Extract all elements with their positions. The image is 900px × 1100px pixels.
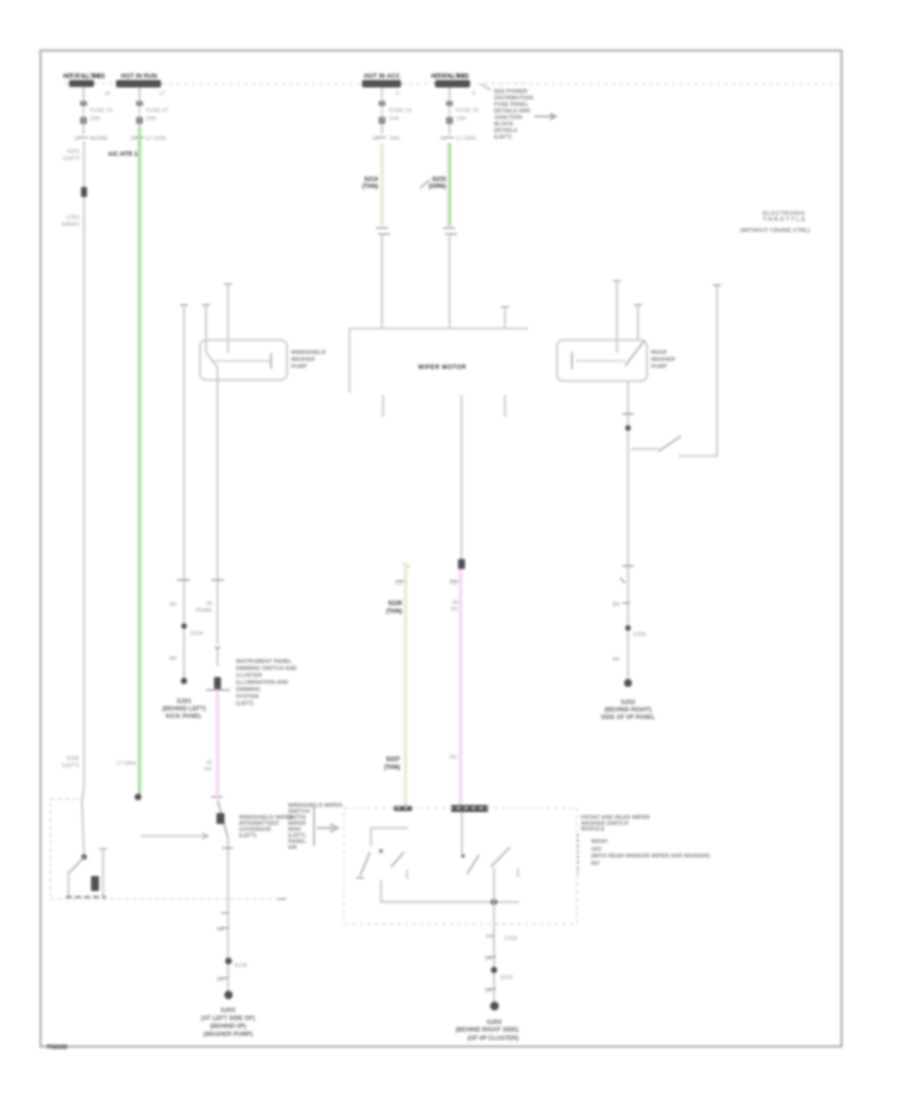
connector crossing on W7 (211, 579, 224, 581)
connector label on pink wire (450, 581, 458, 587)
wire label left of W10 (485, 956, 496, 962)
svg-text:HOT IN RUN: HOT IN RUN (121, 74, 157, 80)
internal hook left (371, 828, 408, 846)
svg-text:FUSE 14: FUSE 14 (389, 108, 411, 114)
wire into P1 pin A (202, 305, 218, 380)
switch blade BL (70, 857, 84, 872)
wire W3 tan upper segment (380, 143, 383, 226)
washer pump note (left of wiper switch box) (239, 815, 293, 839)
wire W6 tan lower segment (404, 563, 411, 806)
svg-text:G203: G203 (221, 1008, 236, 1014)
junction dot internal (491, 899, 497, 905)
contact stub right (99, 849, 107, 898)
svg-text:S214: S214 (364, 177, 379, 183)
fuse F1 symbol (80, 87, 112, 134)
splice label S206 (bottom of W1) (62, 756, 79, 769)
contact dot (379, 849, 383, 853)
connector nub on W7 (214, 677, 221, 689)
wire W7 from P1 down (217, 380, 219, 644)
connector crossing C211 on W4 (443, 228, 457, 234)
svg-text:SIDE OF I/P PANEL: SIDE OF I/P PANEL (601, 715, 656, 721)
svg-text:LT GRN: LT GRN (456, 136, 476, 142)
svg-text:JUNCTION: JUNCTION (494, 115, 522, 121)
switch blade L1 (356, 852, 370, 878)
svg-text:DIMMING: DIMMING (236, 687, 260, 693)
wire into P2 pin A (613, 281, 621, 353)
svg-text:S215: S215 (432, 177, 447, 183)
svg-text:(BEHIND RIGHT): (BEHIND RIGHT) (604, 708, 651, 714)
svg-text:20A: 20A (146, 116, 156, 122)
svg-text:PK/BK: PK/BK (196, 608, 213, 614)
svg-text:17: 17 (159, 91, 165, 97)
svg-text:WASH: WASH (591, 839, 608, 845)
svg-text:CLUSTER: CLUSTER (236, 673, 262, 679)
tick (622, 602, 630, 604)
svg-text:S226: S226 (388, 601, 403, 607)
svg-text:G202: G202 (621, 700, 636, 706)
wide tick below nub (206, 689, 230, 691)
wiper switch note with bracket (288, 803, 342, 851)
wire W4 green upper segment (448, 143, 451, 226)
svg-text:(WITHOUT CRUISE CTRL): (WITHOUT CRUISE CTRL) (740, 228, 810, 234)
arrow line to wiper switch (141, 834, 208, 839)
svg-text:10A: 10A (90, 116, 100, 122)
switch blade L2 (391, 852, 407, 879)
wire W4 gray segment to wiper motor (449, 234, 451, 328)
svg-text:KICK PANEL: KICK PANEL (166, 714, 203, 720)
svg-text:S201: S201 (67, 149, 80, 155)
connector crossing on W8 (177, 579, 190, 581)
wire gauge label row F3 (372, 136, 400, 142)
svg-text:DISTRIBUTION: DISTRIBUTION (494, 96, 533, 102)
inline connector mark (620, 578, 625, 583)
wire into P2 pin B (634, 305, 642, 340)
ground label G1 (162, 699, 206, 720)
wire label left of W11 lower (217, 977, 228, 983)
svg-text:6: 6 (396, 91, 399, 97)
svg-text:(LEFT): (LEFT) (63, 156, 80, 162)
svg-text:(LEFT): (LEFT) (236, 701, 254, 707)
svg-text:TAN: TAN (389, 136, 400, 142)
svg-text:14: 14 (104, 91, 110, 97)
svg-text:S227: S227 (386, 757, 401, 763)
wire into P1 pin B (224, 284, 232, 353)
svg-text:18: 18 (206, 760, 212, 766)
inline connector on W7 (215, 646, 220, 666)
wiper switch label (right of box) (578, 815, 710, 874)
connector label below box C228 (486, 936, 517, 942)
front washer pump P1 (rounded box) (200, 340, 287, 380)
tick at top of L-run (713, 284, 721, 286)
connector label on tan wire (395, 581, 404, 587)
instrument cluster note (mid left) (236, 659, 297, 707)
junction dot on W8 (181, 623, 187, 629)
svg-text:C2: C2 (450, 581, 457, 587)
fuse block blob F2 (116, 80, 161, 88)
junction dot on W11 (225, 958, 232, 965)
svg-text:C228: C228 (504, 936, 517, 942)
connector crossing on W9 lower (622, 565, 634, 567)
wire label left of W11 (217, 927, 228, 933)
note block (right side) (740, 211, 810, 234)
wire W5 from wiper motor center pin (461, 395, 463, 562)
svg-text:10A: 10A (389, 116, 399, 122)
svg-text:BK: BK (613, 657, 621, 663)
svg-text:BK: BK (170, 602, 178, 608)
wiper switch box (bottom center, dashed) (344, 808, 577, 924)
wire W11 from SW2 down to ground (227, 838, 229, 992)
svg-text:FUSE 19: FUSE 19 (456, 108, 478, 114)
wiper motor M1 (open box) (350, 329, 529, 394)
wire gauge label row F4 (440, 136, 476, 142)
pin stub below wiper motor right (504, 395, 506, 417)
pin stub above wiper motor (501, 307, 509, 328)
wire label left of pink (205, 760, 213, 773)
svg-text:SEE POWER: SEE POWER (494, 89, 527, 95)
svg-text:WASHER: WASHER (291, 357, 315, 363)
fuse block blob F4 (435, 80, 470, 88)
wire gauge label row F2 (130, 136, 166, 142)
fuse block blob F1 (69, 80, 94, 87)
svg-text:F50235: F50235 (47, 1045, 68, 1051)
svg-text:FUSE 23: FUSE 23 (90, 108, 112, 114)
svg-text:PUMP: PUMP (651, 364, 667, 370)
connector blob at switch entry (pink) (451, 805, 488, 812)
svg-text:BK: BK (613, 602, 621, 608)
wire W2 (green) from fuse F2 (138, 127, 141, 795)
ground label G2 (601, 700, 656, 721)
pin stub below wiper motor left (382, 395, 384, 417)
svg-text:HOT AT ALL TIMES: HOT AT ALL TIMES (431, 74, 469, 80)
svg-text:G204: G204 (487, 1020, 502, 1026)
svg-text:OFF: OFF (591, 847, 603, 853)
connector tick at switch entry (tan) (394, 806, 412, 811)
switch blade R2 (491, 847, 518, 877)
svg-text:FUSE 27: FUSE 27 (146, 108, 168, 114)
wire L-run from SW1 up right (679, 285, 717, 456)
switch pole from top (461, 812, 463, 854)
wire gauge label row F1 (74, 136, 108, 142)
svg-text:(LEFT): (LEFT) (494, 135, 512, 141)
svg-text:HOT AT ALL TIMES: HOT AT ALL TIMES (63, 74, 105, 80)
tick on W11 below box (221, 912, 229, 914)
connector nub on SW2 (217, 813, 225, 824)
svg-text:(WITH REAR WINDOW WIPER AND WA: (WITH REAR WINDOW WIPER AND WASHER) (591, 854, 710, 860)
svg-text:LT GRN: LT GRN (116, 761, 136, 767)
tick at pink end (211, 796, 223, 798)
svg-text:(TAN): (TAN) (386, 609, 402, 615)
svg-text:(BEHIND I/P): (BEHIND I/P) (210, 1024, 246, 1030)
svg-text:(TAN): (TAN) (362, 184, 378, 190)
junction dot on W10 (491, 967, 497, 973)
svg-text:C201: C201 (67, 215, 80, 221)
fuse block blob F3 (362, 80, 401, 88)
wire W7 pink segment (216, 692, 219, 795)
switch SW1 (rear washer) (631, 436, 681, 451)
svg-text:(GRAY): (GRAY) (61, 222, 80, 228)
svg-text:(TAN): (TAN) (384, 765, 400, 771)
connector nub on W1 (81, 187, 87, 197)
svg-text:(AT LEFT SIDE OF): (AT LEFT SIDE OF) (201, 1016, 255, 1022)
svg-text:PK: PK (451, 607, 459, 613)
svg-text:INT: INT (591, 861, 601, 867)
svg-text:(LEFT): (LEFT) (62, 763, 79, 769)
relay box (bottom left, dashed) (50, 799, 286, 899)
ground label G4 (201, 1008, 255, 1038)
wire W10 through box bottom (493, 868, 495, 1006)
wire W9 from P2 down (627, 381, 629, 684)
wire W1 jog into relay box (82, 786, 84, 855)
splice label S226 (dark) (386, 601, 403, 615)
svg-text:LT GRN: LT GRN (146, 136, 166, 142)
junction dot at green wire end (135, 794, 142, 801)
wire W5 pink segment (459, 569, 462, 806)
ground dot G1 (181, 678, 187, 684)
svg-text:DETAILS AND: DETAILS AND (494, 109, 530, 115)
fuse F3 symbol (379, 88, 412, 135)
svg-text:S228: S228 (234, 963, 247, 969)
svg-text:INSTRUMENT PANEL: INSTRUMENT PANEL (236, 659, 292, 665)
splice label S227 (dark) (384, 757, 401, 771)
svg-text:18: 18 (452, 600, 458, 606)
svg-text:(OF I/P CLUSTER): (OF I/P CLUSTER) (467, 1036, 518, 1042)
fuse F2 symbol (136, 88, 168, 135)
pump P2 label (651, 350, 675, 370)
svg-text:BK: BK (170, 656, 178, 662)
svg-text:15A: 15A (456, 116, 466, 122)
darker dashes on box bottom (66, 896, 106, 898)
svg-text:G201: G201 (177, 699, 192, 705)
wire label (left of W7) (196, 601, 213, 614)
ground dot G4 (224, 991, 232, 999)
svg-text:S300: S300 (633, 632, 646, 638)
connector label C201 (61, 215, 80, 228)
svg-text:(GRN): (GRN) (429, 184, 446, 190)
wire W3 gray segment to wiper motor (381, 234, 383, 328)
svg-text:ILLUMINATION AND: ILLUMINATION AND (236, 680, 288, 686)
wire W8 (left of W7) (180, 305, 188, 680)
svg-text:9: 9 (472, 91, 475, 97)
ground dot G3 (490, 1002, 499, 1011)
svg-text:S234: S234 (190, 631, 203, 637)
junction dot in relay box (81, 854, 87, 860)
splice label S214 (dark) (362, 177, 379, 190)
svg-text:A/C HTR 10: A/C HTR 10 (108, 152, 141, 158)
svg-text:REAR: REAR (651, 350, 667, 356)
tick on W11 (222, 847, 233, 849)
tick on W9 (622, 413, 634, 415)
svg-text:BLOCK: BLOCK (494, 122, 514, 128)
svg-text:MODULE: MODULE (581, 827, 605, 833)
ground dot G2 (624, 679, 632, 687)
connector nub on W5 (458, 559, 465, 569)
svg-text:(LEFT): (LEFT) (239, 833, 257, 839)
contact stub left (68, 871, 70, 898)
connector crossing C210 on W3 (376, 228, 390, 234)
internal bus line (381, 880, 519, 902)
svg-text:SYSTEM: SYSTEM (236, 694, 259, 700)
svg-text:WINDSHIELD: WINDSHIELD (291, 350, 326, 356)
pump P1 label (291, 350, 326, 370)
junction dot on W9 upper (625, 425, 631, 431)
wire label PK (pink) (451, 600, 459, 613)
switch blade R1 (461, 854, 479, 874)
svg-text:HOT IN ACC: HOT IN ACC (364, 74, 401, 80)
svg-text:PK: PK (450, 755, 458, 761)
svg-text:WH/BK: WH/BK (90, 136, 108, 142)
switch SW2 blade (pink wire) (218, 800, 229, 838)
svg-text:SW: SW (288, 845, 298, 851)
svg-text:S206: S206 (66, 756, 79, 762)
svg-text:PK: PK (205, 767, 213, 773)
fuse F4 symbol (446, 88, 478, 135)
svg-text:DIMMING SWITCH AND: DIMMING SWITCH AND (236, 666, 297, 672)
svg-text:(BEHIND RIGHT SIDE): (BEHIND RIGHT SIDE) (456, 1028, 519, 1034)
svg-text:18: 18 (206, 601, 212, 607)
svg-text:DETAILS: DETAILS (494, 128, 517, 134)
svg-text:WASHER: WASHER (651, 357, 675, 363)
svg-text:C2: C2 (395, 581, 402, 587)
wire W1 (white) from fuse F1 (83, 141, 85, 788)
splice label S215 (dark) (420, 177, 447, 190)
junction dot on W9 (625, 625, 631, 631)
svg-text:PUMP: PUMP (291, 364, 307, 370)
svg-text:FUSE PANEL: FUSE PANEL (494, 102, 529, 108)
power bus (dashed) (64, 83, 838, 85)
splice label S201 (63, 149, 80, 162)
svg-text:S230: S230 (500, 975, 513, 981)
rear washer pump P2 (rounded box) (557, 340, 647, 381)
svg-text:(WASHER PUMP): (WASHER PUMP) (203, 1032, 252, 1038)
svg-text:WIPER MOTOR: WIPER MOTOR (418, 365, 467, 371)
svg-text:(BEHIND LEFT): (BEHIND LEFT) (162, 707, 206, 713)
connector nub in relay box (91, 876, 99, 891)
wire label left of W10 lower (485, 988, 496, 994)
ground label G3 (456, 1020, 519, 1042)
power distribution note with arrow (top right) (481, 84, 556, 141)
